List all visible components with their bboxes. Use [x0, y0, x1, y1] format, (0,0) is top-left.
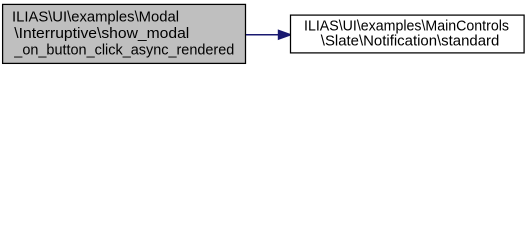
node box: ILIAS\UI\examples\Modal\Interruptive\show_modal_on_button_click_async_rendered (current node, gray) [3, 4, 246, 63]
svg-text:\Interruptive\show_modal: \Interruptive\show_modal [14, 26, 189, 42]
svg-text:\Slate\Notification\standard: \Slate\Notification\standard [321, 34, 500, 50]
node box: ILIAS\UI\examples\MainControls\Slate\Notification\standard [291, 15, 525, 53]
svg-text:ILIAS\UI\examples\Modal: ILIAS\UI\examples\Modal [12, 9, 179, 25]
edge arrowhead [278, 30, 291, 39]
svg-text:ILIAS\UI\examples\MainControls: ILIAS\UI\examples\MainControls [304, 18, 509, 34]
svg-text:_on_button_click_async_rendere: _on_button_click_async_rendered [13, 43, 234, 59]
edge (call arrow) shaft [246, 34, 280, 36]
